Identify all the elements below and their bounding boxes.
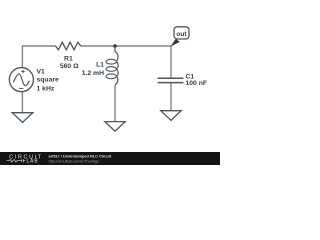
inductor L1 top lead — [114, 46, 116, 52]
V1 minus sign — [19, 87, 23, 89]
footer logo cap symbol — [20, 159, 26, 162]
svg-text:V1: V1 — [37, 68, 46, 75]
svg-text:R1: R1 — [64, 55, 73, 62]
inductor L1 loop 2 — [106, 67, 116, 72]
svg-text:560 Ω: 560 Ω — [60, 63, 79, 70]
voltage source V1 — [9, 68, 33, 92]
svg-text:out: out — [176, 31, 187, 38]
node out flag pointer — [170, 39, 179, 47]
wire L1 bottom to ground — [114, 86, 116, 122]
svg-text:1.2 mH: 1.2 mH — [82, 70, 104, 77]
wire V1 bottom to ground — [21, 92, 23, 113]
inductor L1 loop 1 — [106, 59, 116, 64]
svg-text:http://circuitlab.com/c/7hq43g: http://circuitlab.com/c/7hq43gv — [49, 158, 99, 163]
svg-text:L1: L1 — [96, 61, 104, 68]
inductor L1 coil spine — [115, 52, 118, 86]
inductor L1 loop 3 — [106, 74, 116, 79]
wire top-left from source to resistor — [22, 46, 55, 67]
wire out node down to C1 — [170, 46, 172, 78]
footer logo zigzag — [7, 159, 20, 162]
V1 sine wave — [13, 74, 29, 86]
capacitor C1 top plate — [158, 77, 184, 79]
resistor R1 — [56, 42, 81, 50]
junction node dot — [113, 44, 117, 48]
V1 plus sign — [21, 70, 24, 73]
out label box — [174, 27, 189, 39]
wire resistor to out node — [81, 45, 171, 47]
ground under C1 — [161, 111, 181, 121]
svg-text:1 kHz: 1 kHz — [37, 86, 55, 93]
footer bar — [0, 152, 220, 165]
svg-text:square: square — [37, 77, 60, 84]
svg-text:100 nF: 100 nF — [186, 80, 208, 87]
wire C1 bottom to ground — [170, 83, 172, 111]
svg-text:LAB: LAB — [27, 159, 39, 165]
ground under L1 — [105, 122, 125, 132]
capacitor C1 bottom plate — [158, 82, 184, 84]
ground under V1 — [12, 113, 33, 123]
